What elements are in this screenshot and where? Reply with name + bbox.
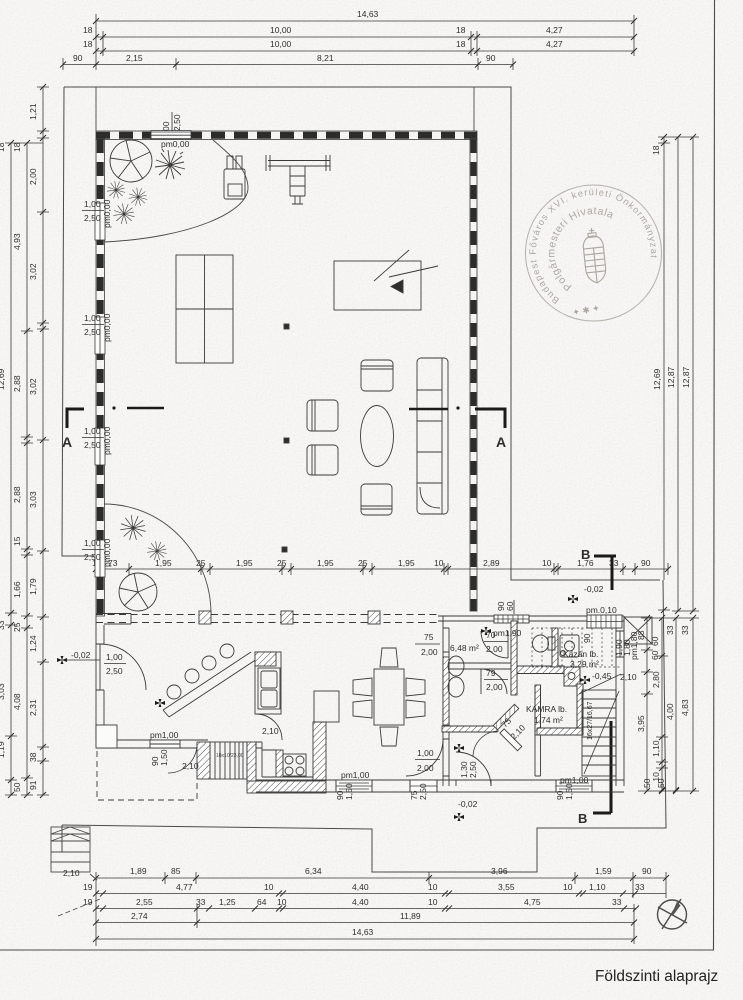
svg-text:2,50: 2,50 — [84, 213, 101, 223]
svg-text:19: 19 — [83, 897, 93, 907]
svg-text:00: 00 — [161, 121, 171, 131]
svg-text:B: B — [578, 811, 587, 826]
svg-text:18: 18 — [12, 142, 22, 152]
svg-text:14,63: 14,63 — [352, 927, 374, 937]
svg-text:2,00: 2,00 — [28, 168, 38, 185]
svg-text:4,77: 4,77 — [176, 882, 193, 892]
svg-text:25: 25 — [358, 558, 368, 568]
svg-text:-0,02: -0,02 — [458, 799, 478, 809]
svg-text:15: 15 — [12, 536, 22, 546]
svg-text:2,88: 2,88 — [12, 375, 22, 392]
svg-text:75: 75 — [424, 632, 434, 642]
svg-text:1,95: 1,95 — [236, 558, 253, 568]
svg-text:4,40: 4,40 — [352, 897, 369, 907]
svg-text:8,21: 8,21 — [317, 53, 334, 63]
svg-text:60: 60 — [505, 601, 515, 611]
svg-text:3,03: 3,03 — [0, 683, 6, 700]
svg-text:10: 10 — [428, 897, 438, 907]
svg-text:10: 10 — [542, 558, 552, 568]
svg-text:KAMRA lb.: KAMRA lb. — [526, 704, 567, 714]
svg-text:10: 10 — [428, 882, 438, 892]
svg-text:A: A — [62, 434, 72, 450]
svg-text:pm1,80: pm1,80 — [629, 631, 639, 660]
svg-text:2,50: 2,50 — [106, 666, 123, 676]
svg-text:18x10/23,00: 18x10/23,00 — [216, 753, 244, 759]
svg-text:10: 10 — [434, 558, 444, 568]
svg-text:2,10: 2,10 — [620, 672, 637, 682]
svg-text:14,63: 14,63 — [357, 9, 379, 19]
svg-text:1,10: 1,10 — [589, 882, 606, 892]
svg-text:25: 25 — [12, 622, 22, 632]
svg-text:18: 18 — [83, 39, 93, 49]
svg-text:90: 90 — [486, 53, 496, 63]
svg-text:pm0,00: pm0,00 — [102, 199, 112, 228]
svg-text:10: 10 — [277, 897, 287, 907]
svg-text:Földszinti alaprajz: Földszinti alaprajz — [595, 968, 718, 985]
svg-text:25: 25 — [277, 558, 287, 568]
svg-text:3,95: 3,95 — [636, 715, 646, 732]
svg-text:1,95: 1,95 — [317, 558, 334, 568]
svg-text:3,55: 3,55 — [498, 882, 515, 892]
svg-text:2,50: 2,50 — [172, 114, 182, 131]
svg-text:33: 33 — [635, 882, 645, 892]
svg-text:4,27: 4,27 — [546, 39, 563, 49]
svg-text:19: 19 — [83, 882, 93, 892]
svg-text:1,21: 1,21 — [28, 103, 38, 120]
svg-text:1,79: 1,79 — [28, 578, 38, 595]
svg-text:90: 90 — [641, 558, 651, 568]
svg-text:3,03: 3,03 — [28, 491, 38, 508]
svg-text:1,50: 1,50 — [564, 783, 574, 800]
svg-text:18: 18 — [456, 25, 466, 35]
svg-text:33: 33 — [0, 620, 6, 630]
svg-text:3,96: 3,96 — [491, 866, 508, 876]
svg-text:1,50: 1,50 — [159, 749, 169, 766]
svg-text:33: 33 — [665, 625, 675, 635]
svg-text:10: 10 — [563, 882, 573, 892]
svg-text:1,74 m²: 1,74 m² — [534, 715, 563, 725]
svg-text:-0,45: -0,45 — [592, 671, 612, 681]
svg-text:1,25: 1,25 — [219, 897, 236, 907]
svg-text:18: 18 — [456, 39, 466, 49]
svg-text:2,00: 2,00 — [417, 763, 434, 773]
svg-text:1,00: 1,00 — [84, 199, 101, 209]
svg-text:12,69: 12,69 — [652, 368, 662, 390]
svg-text:10,00: 10,00 — [270, 25, 292, 35]
svg-text:11,89: 11,89 — [400, 911, 421, 921]
svg-text:2,55: 2,55 — [136, 897, 153, 907]
svg-text:1,95: 1,95 — [155, 558, 172, 568]
svg-text:4,93: 4,93 — [12, 233, 22, 250]
svg-text:1,89: 1,89 — [130, 866, 147, 876]
svg-text:1,50: 1,50 — [344, 783, 354, 800]
svg-text:pm0,00: pm0,00 — [102, 538, 112, 567]
svg-text:-0,02: -0,02 — [71, 650, 91, 660]
svg-text:60: 60 — [650, 636, 660, 646]
svg-text:pm1,00: pm1,00 — [150, 730, 179, 740]
svg-text:2,10: 2,10 — [182, 761, 199, 771]
svg-text:12,87: 12,87 — [681, 366, 691, 388]
svg-text:4,40: 4,40 — [352, 882, 369, 892]
svg-text:1,66: 1,66 — [12, 581, 22, 598]
svg-text:50: 50 — [12, 782, 22, 792]
svg-text:2,89: 2,89 — [483, 558, 500, 568]
svg-text:4,00: 4,00 — [665, 703, 675, 720]
svg-text:10: 10 — [264, 882, 274, 892]
svg-text:90: 90 — [73, 53, 83, 63]
svg-text:4,83: 4,83 — [680, 699, 690, 716]
svg-text:6,34: 6,34 — [305, 866, 322, 876]
svg-text:4,75: 4,75 — [524, 897, 541, 907]
svg-text:1,24: 1,24 — [28, 635, 38, 652]
svg-text:Kazán lb.: Kazán lb. — [563, 649, 598, 659]
svg-text:A: A — [496, 434, 506, 450]
svg-text:1,00: 1,00 — [417, 748, 434, 758]
svg-text:pm0,00: pm0,00 — [102, 426, 112, 455]
svg-text:38: 38 — [28, 752, 38, 762]
svg-text:B: B — [581, 547, 590, 562]
svg-text:50: 50 — [642, 778, 652, 788]
svg-text:12,69: 12,69 — [0, 368, 6, 390]
svg-text:2,00: 2,00 — [486, 682, 503, 692]
svg-text:33: 33 — [612, 897, 622, 907]
svg-text:2,88: 2,88 — [12, 486, 22, 503]
svg-text:16x27/16,67: 16x27/16,67 — [587, 701, 594, 740]
svg-text:3,02: 3,02 — [28, 263, 38, 280]
svg-text:2,10: 2,10 — [262, 726, 279, 736]
svg-text:91: 91 — [28, 780, 38, 790]
svg-text:12,87: 12,87 — [666, 366, 676, 388]
svg-text:pm1,90: pm1,90 — [493, 628, 522, 638]
svg-text:4,08: 4,08 — [12, 693, 22, 710]
svg-text:2,31: 2,31 — [28, 699, 38, 716]
svg-text:18: 18 — [83, 25, 93, 35]
svg-text:pm0,00: pm0,00 — [161, 139, 190, 149]
svg-text:1,59: 1,59 — [595, 866, 612, 876]
svg-text:33: 33 — [196, 897, 206, 907]
svg-text:50: 50 — [656, 778, 666, 788]
svg-text:90: 90 — [642, 866, 652, 876]
svg-text:1,95: 1,95 — [398, 558, 415, 568]
svg-text:85: 85 — [171, 866, 181, 876]
svg-text:64: 64 — [257, 897, 267, 907]
svg-text:2,50: 2,50 — [468, 761, 478, 778]
svg-text:79: 79 — [486, 668, 496, 678]
svg-text:18: 18 — [0, 142, 6, 152]
svg-text:1,00: 1,00 — [106, 652, 123, 662]
svg-text:2,15: 2,15 — [126, 53, 143, 63]
svg-text:-0,02: -0,02 — [584, 584, 604, 594]
svg-text:18: 18 — [651, 145, 661, 155]
svg-text:2,74: 2,74 — [131, 911, 148, 921]
svg-text:1,19: 1,19 — [0, 741, 6, 758]
svg-text:10,00: 10,00 — [270, 39, 292, 49]
svg-text:2,50: 2,50 — [418, 783, 428, 800]
svg-text:2,80: 2,80 — [651, 671, 661, 688]
svg-text:pm.0,10: pm.0,10 — [586, 605, 617, 615]
svg-text:3,29 m²: 3,29 m² — [570, 659, 599, 669]
svg-text:2,00: 2,00 — [421, 647, 438, 657]
svg-text:pm0,00: pm0,00 — [102, 313, 112, 342]
svg-text:90: 90 — [582, 633, 592, 643]
svg-text:2,10: 2,10 — [63, 868, 80, 878]
svg-text:1,10: 1,10 — [651, 740, 661, 757]
svg-text:33: 33 — [609, 558, 619, 568]
svg-text:60: 60 — [650, 650, 660, 660]
svg-text:33: 33 — [680, 625, 690, 635]
svg-text:4,27: 4,27 — [546, 25, 563, 35]
svg-text:pm1,00: pm1,00 — [341, 770, 370, 780]
svg-text:2,00: 2,00 — [486, 644, 503, 654]
svg-text:3,02: 3,02 — [28, 378, 38, 395]
svg-text:6,48 m²: 6,48 m² — [450, 643, 479, 653]
